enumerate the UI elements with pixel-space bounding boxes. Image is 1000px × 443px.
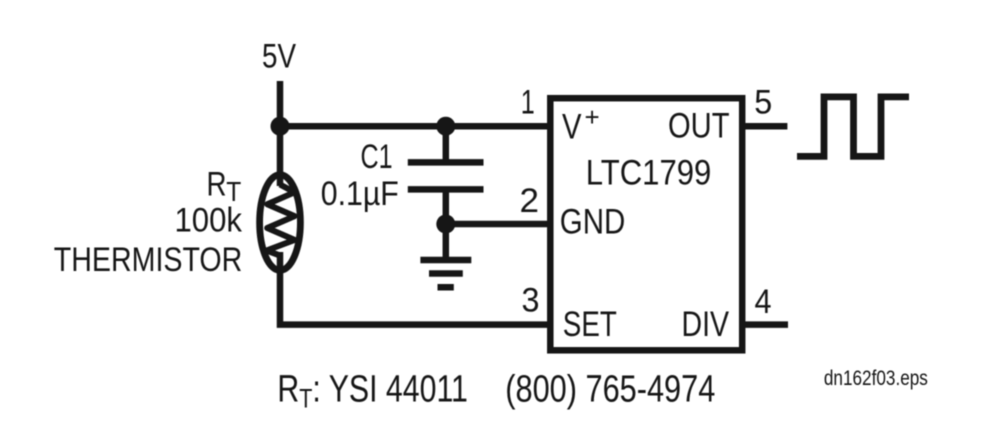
svg-text:RT: YSI 44011: RT: YSI 44011 — [277, 369, 467, 414]
op-amp/IC U1 LTC1799 box outline — [550, 98, 742, 350]
wire: pin 5 OUT wire — [742, 123, 787, 130]
capacitor C1 top plate — [408, 159, 484, 166]
svg-text:GND: GND — [560, 202, 626, 241]
svg-text:THERMISTOR: THERMISTOR — [54, 241, 243, 279]
ground symbol bar 1 — [420, 257, 471, 264]
svg-text:C1: C1 — [361, 138, 393, 176]
svg-text:dn162f03.eps: dn162f03.eps — [824, 367, 928, 390]
svg-text:100k: 100k — [175, 201, 243, 239]
thermistor RT zigzag element — [267, 185, 295, 256]
wire: top rail from 5V node to pin 1 — [280, 123, 550, 130]
node: junction dot at C1 top — [436, 117, 455, 136]
wire: C1 top lead — [443, 126, 450, 163]
svg-text:(800) 765-4974: (800) 765-4974 — [505, 369, 715, 411]
svg-text:1: 1 — [521, 83, 535, 121]
svg-text:LTC1799: LTC1799 — [586, 153, 712, 192]
svg-text:4: 4 — [755, 283, 772, 321]
svg-text:2: 2 — [520, 182, 540, 220]
svg-text:5: 5 — [754, 83, 772, 121]
svg-text:V: V — [562, 107, 582, 146]
svg-text:OUT: OUT — [668, 107, 730, 146]
svg-text:+: + — [585, 102, 600, 132]
wire: thermistor bottom leg and SET wire to pin 3 — [280, 252, 550, 325]
svg-text:0.1µF: 0.1µF — [321, 175, 399, 213]
capacitor C1 bottom plate — [408, 186, 484, 193]
wire: pin 4 DIV wire — [742, 321, 788, 328]
wire: ground stub — [443, 224, 450, 259]
svg-text:3: 3 — [522, 281, 540, 319]
svg-text:DIV: DIV — [682, 305, 730, 344]
wire: C1 bottom lead — [443, 189, 450, 228]
square wave output waveform symbol — [797, 97, 909, 156]
wire: GND wire to pin 2 — [446, 221, 550, 228]
thermistor RT body (ellipse) — [260, 175, 301, 271]
node: junction dot at 5V rail / thermistor — [271, 117, 290, 136]
svg-text:SET: SET — [563, 305, 617, 344]
svg-text:5V: 5V — [262, 38, 296, 76]
ground symbol bar 3 — [438, 284, 454, 291]
wire: 5V supply stub — [277, 81, 284, 130]
ground symbol bar 2 — [429, 270, 463, 277]
wire: thermistor top leg — [277, 126, 284, 186]
svg-text:R: R — [207, 166, 227, 204]
node: junction dot at C1 bottom / GND — [436, 215, 455, 234]
